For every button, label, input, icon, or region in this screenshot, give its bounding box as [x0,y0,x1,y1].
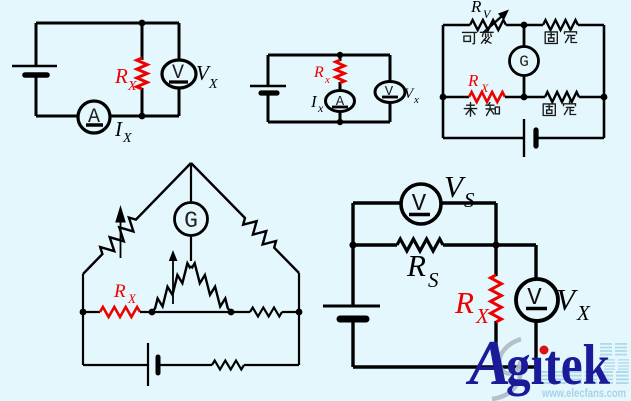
node C5 second-right [492,241,499,248]
wire C2 bottom [268,121,390,124]
wire C4 bottom right [244,364,299,366]
wire C4 galvanometer branch [190,163,192,261]
label RX C5 [454,285,490,328]
wire C4 middle left segment [83,311,100,313]
watermark light blue text [538,343,629,400]
wire C3 middle right segment [579,96,604,99]
svg-text:R: R [470,0,482,16]
wire C4 right slant with resistor [191,163,299,273]
wire C2 top [268,54,390,57]
node C2 top [337,52,343,58]
resistor RS [397,239,443,251]
wire C2 right [389,55,392,122]
svg-text:R: R [406,248,426,283]
svg-text:X: X [127,291,137,306]
resistor RX unknown [469,92,505,102]
voltmeter V1 [162,60,196,88]
wire C3 galvanometer branch [523,25,526,97]
wire C1 Rx branch upper [141,23,144,60]
wire C5 left vertical lower [351,319,354,367]
label Ix C2 [310,92,324,115]
wire C4 left vertical [82,274,84,365]
wire C1 right [178,23,181,116]
svg-text:R: R [114,64,128,88]
svg-text:R: R [313,64,324,81]
label RX C4 [113,281,137,306]
wire C4 right vertical [298,273,300,365]
voltmeter VX [516,279,558,321]
resistor RX C1 [137,58,147,89]
node C4 left [80,309,87,316]
arrow RV [483,10,509,34]
wire C5 RX branch [494,203,497,367]
wire C3 bottom left [443,137,524,140]
wire C2 left lower [267,93,270,122]
resistor RX C5 [491,275,502,322]
svg-text:X: X [480,81,489,95]
node C3 mid-right [601,94,608,101]
label VS [444,169,475,212]
node C5 second-left [349,241,356,248]
node C1 top [139,20,146,27]
logo red dot [540,346,549,355]
node C3 top [521,22,528,29]
node C4 tent-left [149,309,156,316]
logo Agitek [465,328,610,398]
wire C1 Rx branch lower [141,88,144,116]
svg-text:X: X [127,79,137,94]
svg-text:S: S [464,188,475,212]
svg-text:R: R [113,281,126,302]
arrow left slant [115,205,126,258]
label RV [470,0,492,21]
resistor RX C4 [100,307,140,317]
ammeter A2 [326,91,355,112]
battery B5 [323,306,380,319]
svg-text:gıtek: gıtek [506,334,610,397]
svg-text:G: G [519,53,529,71]
node C4 tent-right [228,309,235,316]
wire C5 top right segment [441,201,496,204]
wire C4 bottom mid [158,364,212,366]
label Vx C2 [404,86,419,106]
wire C3 left [442,25,445,138]
wire C1 left lower [35,75,38,116]
label IX C1 [114,117,132,146]
label kahen (variable) [463,30,494,44]
node C2 bottom [337,119,343,125]
battery B3 [524,119,536,157]
resistor fixed bottom [545,92,579,102]
wire C4 middle right segment [282,311,299,313]
svg-text:X: X [576,301,591,325]
node C1 bottom [139,113,146,120]
resistor C4 bottom [212,361,244,370]
resistor Rx C2 [336,60,345,83]
label RS [406,248,439,292]
label kotei (fixed) bottom [543,101,576,115]
svg-text:I: I [114,117,123,141]
svg-text:R: R [454,285,474,320]
node C3 mid-left [440,94,447,101]
node C4 right [296,309,303,316]
battery B4 [148,343,158,386]
wire C5 VX branch lower [534,319,537,367]
svg-text:G: G [184,208,198,234]
label Rx C2 [313,64,330,86]
label RX C3 [467,71,489,95]
wire C1 bottom [36,115,179,118]
wire C2 left upper [267,55,270,86]
galvanometer G1 [510,47,539,76]
wire C5 bottom [353,365,536,368]
logo swirl [492,339,521,399]
node C3 mid-center [521,94,528,101]
svg-text:x: x [317,101,324,115]
battery B1 [12,66,57,75]
svg-text:V: V [556,282,578,317]
label RX C1 [114,64,137,94]
wire C1 top [36,22,179,25]
svg-text:x: x [413,94,419,106]
galvanometer G2 [175,203,208,236]
wire C4 middle mid segment [140,311,250,313]
battery B2 [250,86,286,93]
wire C3 right [603,25,606,138]
tent left slope resistor [152,263,191,312]
resistor fixed top [543,20,578,30]
wire C3 top left segment [443,24,470,27]
label kotei (fixed) top [545,29,577,43]
wire C5 left vertical upper [351,203,354,306]
wire C4 bottom left [83,364,148,366]
wire C2 middle branch upper [339,55,342,61]
voltmeter V2 [375,82,405,103]
wire C5 second left segment [353,243,397,246]
svg-text:V: V [444,169,466,204]
wire C1 left upper [35,23,38,66]
wire C5 VX branch upper [534,245,537,279]
wire C3 bottom right [536,137,604,140]
wire C3 top mid segment [506,24,543,27]
svg-text:x: x [324,74,330,86]
voltmeter VS [401,184,441,224]
svg-text:X: X [475,304,490,328]
tent right slope resistor [191,263,231,312]
wire C2 middle branch mid [339,82,342,122]
svg-text:A: A [465,328,511,398]
wire C3 middle left segment [443,96,469,99]
resistor C4 middle right [250,308,282,317]
arrow tent [169,250,178,304]
label michi (unknown) [464,103,499,117]
wire C4 left slant with variable resistor [83,163,191,274]
resistor RV variable [470,20,506,30]
wire C3 top right segment [578,24,604,27]
label VX C5 [556,282,591,325]
ammeter A1 [78,101,110,133]
wire C5 second right segment [443,243,536,246]
wire C5 top left segment [353,201,401,204]
svg-text:S: S [428,268,439,292]
svg-text:X: X [122,131,132,146]
wire C3 middle mid segment [505,96,545,99]
label VX C1 [196,61,218,92]
svg-text:R: R [467,71,479,90]
svg-text:X: X [208,77,218,92]
